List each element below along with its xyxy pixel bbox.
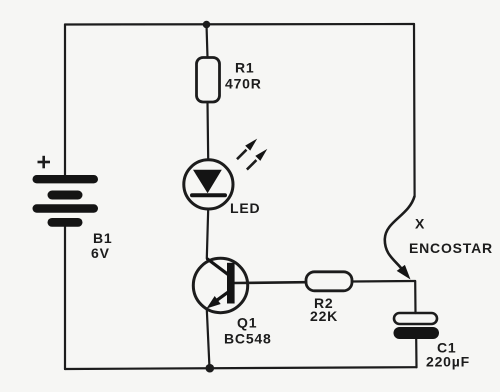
- resistor R2: [306, 272, 352, 291]
- wire Q1 emitter to bottom rail: [207, 310, 210, 369]
- svg-text:B1: B1: [93, 230, 113, 246]
- battery plus sign: [38, 156, 51, 169]
- transistor Q1 circle: [193, 258, 247, 312]
- touch point curved arrow (open wire end): [385, 196, 415, 273]
- wire left vertical (battery + to top rail): [64, 25, 66, 177]
- svg-text:Q1: Q1: [237, 315, 257, 331]
- node junction top (top rail / R1): [203, 21, 211, 29]
- wire top rail: [65, 23, 414, 26]
- battery B1: [33, 175, 99, 227]
- svg-text:6V: 6V: [91, 245, 110, 261]
- LED light arrow 2: [247, 149, 267, 170]
- node junction bottom (bottom rail / Q1 emitter): [206, 364, 215, 373]
- wire R1 to LED: [206, 102, 209, 160]
- svg-text:R1: R1: [235, 60, 255, 76]
- transistor Q1 base bar: [227, 263, 235, 304]
- wire Q1 base to R2: [234, 281, 306, 284]
- svg-text:ENCOSTAR: ENCOSTAR: [409, 240, 493, 256]
- wire R1 top (top rail to R1): [207, 25, 208, 58]
- LED D1 triangle (anode): [193, 170, 222, 193]
- LED D1 cathode bar: [192, 193, 225, 197]
- capacitor C1 bottom plate: [394, 327, 440, 339]
- LED light arrow 1: [237, 139, 257, 160]
- wire bottom rail: [65, 367, 417, 369]
- svg-text:BC548: BC548: [224, 331, 272, 347]
- wire R2 to node X corner: [352, 280, 415, 283]
- svg-text:LED: LED: [230, 200, 260, 216]
- svg-text:470R: 470R: [225, 76, 262, 92]
- wire left vertical (battery - to bottom rail): [64, 226, 66, 369]
- capacitor C1 top plate: [394, 313, 437, 324]
- svg-text:X: X: [415, 216, 425, 232]
- resistor R1: [197, 58, 220, 103]
- transistor Q1 collector stroke: [207, 259, 229, 275]
- wire LED to Q1 collector: [207, 209, 208, 259]
- svg-text:220µF: 220µF: [426, 354, 470, 370]
- wire node X corner down to C1: [414, 281, 416, 313]
- wire right vertical from top rail (open ended): [413, 24, 416, 196]
- svg-text:22K: 22K: [310, 308, 338, 324]
- wire C1 to bottom rail: [415, 339, 417, 367]
- LED D1 circle: [184, 160, 233, 209]
- transistor Q1 emitter stroke with arrow: [214, 292, 229, 303]
